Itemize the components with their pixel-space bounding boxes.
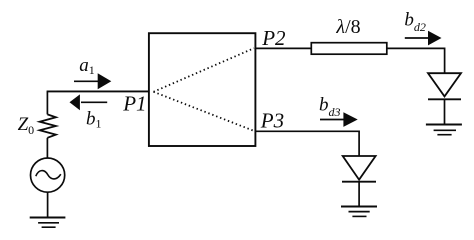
svg-text:P2: P2 bbox=[261, 26, 286, 50]
svg-text:λ/8: λ/8 bbox=[335, 16, 360, 38]
svg-text:P3: P3 bbox=[260, 109, 284, 133]
svg-text:P1: P1 bbox=[122, 91, 146, 115]
